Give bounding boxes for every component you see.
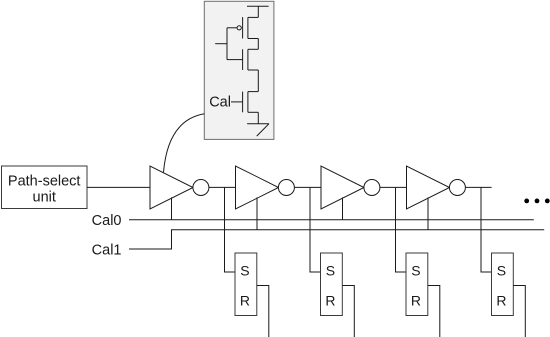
Path-select unit box (2, 166, 88, 209)
wire path-select to U1 (87, 186, 150, 188)
svg-text:R: R (496, 293, 506, 309)
transistor M2 (NMOS) (227, 49, 258, 70)
inverter U2 (236, 166, 295, 209)
svg-text:S: S (411, 263, 420, 279)
wire U3 output to SR3 S input (396, 187, 407, 272)
inverter U4 (407, 166, 466, 209)
transistor M1 (PMOS) (227, 17, 258, 49)
wire U2 out to U3 in (294, 186, 321, 188)
svg-text:R: R (325, 293, 335, 309)
svg-text:Cal1: Cal1 (92, 242, 122, 258)
svg-text:Cal: Cal (209, 95, 231, 111)
transistor M3 (Cal NMOS) (231, 92, 258, 113)
svg-text:Path-select: Path-select (8, 173, 81, 189)
wire SR1 output (257, 286, 269, 337)
callout curve from inset to inverter U1 (164, 114, 205, 173)
input fork wire (215, 28, 227, 60)
wire U3 cal tap to Cal0 (342, 197, 344, 219)
wire M2 source to M3 drain (257, 70, 259, 92)
net Cal1 (129, 230, 544, 249)
ellipsis continuation dots (524, 199, 549, 204)
wire U1 output to SR1 S input (225, 187, 236, 272)
inverter U3 (321, 166, 380, 209)
svg-text:S: S (326, 263, 335, 279)
latch SR3 (406, 253, 428, 316)
VDD rail (247, 6, 269, 17)
svg-text:R: R (411, 293, 421, 309)
latch SR4 (492, 253, 514, 316)
latch SR1 (235, 253, 257, 316)
wire U4 cal tap to Cal1 (427, 197, 429, 229)
wire SR3 output (428, 286, 440, 337)
svg-text:S: S (497, 263, 506, 279)
net Cal0 (129, 219, 534, 221)
svg-text:R: R (240, 293, 250, 309)
wire U1 cal tap to Cal0 (171, 197, 173, 219)
wire SR4 output (513, 286, 525, 337)
wire U4 out stub (465, 186, 491, 188)
svg-text:S: S (240, 263, 249, 279)
inset detail box (calibrated inverter schematic) (204, 1, 274, 139)
wire U3 out to U4 in (380, 186, 407, 188)
inverter U1 (150, 166, 209, 209)
svg-text:unit: unit (33, 189, 56, 205)
wire U4 output to SR4 S input (481, 187, 492, 272)
wire M3 source to ground (257, 112, 259, 123)
wire SR2 output (342, 286, 354, 337)
ground (247, 124, 269, 136)
wire U2 cal tap to Cal1 (256, 197, 258, 229)
wire U1 out to U2 in (209, 186, 236, 188)
latch SR2 (321, 253, 343, 316)
wire U2 output to SR2 S input (310, 187, 321, 272)
svg-text:Cal0: Cal0 (92, 213, 122, 229)
